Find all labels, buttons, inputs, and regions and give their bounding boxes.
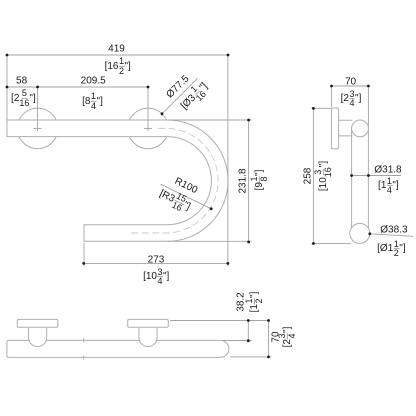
dim text 419 — [108, 45, 125, 54]
dim text [2 3/4"] (bottom view) — [278, 327, 296, 348]
flange stem (side) — [339, 120, 353, 136]
flange F2 circle (front) — [128, 108, 169, 149]
dim text 209.5 — [81, 76, 106, 85]
hidden edge ticks of lower run end — [83, 338, 85, 359]
dim 231.8 line — [248, 120, 250, 242]
ext line right x=228 (419 + 273) — [227, 55, 229, 266]
dim 58 / 209.5 line — [7, 86, 148, 88]
flange F2 center tick — [144, 127, 152, 129]
dim text Ø31.8 — [374, 166, 401, 175]
ext 258 bottom — [312, 242, 352, 244]
ext line left x=7 — [6, 55, 8, 120]
leader Ø38.3 — [370, 234, 413, 237]
dim text 58 — [16, 76, 27, 85]
flange stem S2 (bottom view) — [139, 328, 157, 347]
dim text [10 3/16"] — [314, 160, 332, 190]
dim text [Ø1 1/2"] — [377, 239, 405, 257]
dim text [2 3/4"] (side) — [341, 89, 362, 107]
flange F1 centerline — [37, 87, 39, 131]
dim text 38.2 (bottom view) — [237, 292, 246, 311]
ext 258 top — [312, 107, 332, 109]
ext 70 right — [367, 86, 369, 127]
tube centerline (dash-dot) — [130, 128, 218, 233]
flange F2 centerline — [147, 87, 149, 131]
dim text [2 5/16"] — [11, 89, 36, 107]
ext plate top line (bottom view) — [170, 320, 269, 322]
dim text Ø38.3 — [380, 225, 407, 234]
dim 70 line (side) — [332, 85, 369, 87]
dim text [8 1/4"] — [82, 92, 103, 110]
dim text [R3 15/16"] — [156, 185, 194, 216]
dim 38.2 line — [247, 321, 249, 341]
ext band top right — [222, 340, 252, 342]
leader R100 — [161, 184, 212, 209]
dim text [1 1/4"] — [378, 177, 399, 195]
dim 273 line — [84, 262, 228, 264]
dim text [1 1/2"] (bottom view) — [245, 291, 263, 312]
bar band (bottom view) — [7, 340, 229, 357]
dim 70 line (bottom view) — [268, 321, 270, 357]
ext 70 left — [331, 86, 333, 107]
leader Ø77.5 — [162, 78, 198, 114]
dim 419 line — [7, 54, 228, 56]
flange plate P1 (bottom view) — [17, 319, 58, 327]
dim text 70 (bottom view) — [272, 332, 281, 343]
dim text [9 1/8"] — [250, 169, 268, 190]
dim text [10 3/4"] — [143, 267, 169, 285]
ext band bottom right — [230, 356, 272, 358]
dim text [Ø3 1/16"] — [176, 78, 212, 114]
dimension end dots — [6, 54, 372, 359]
dim text 273 — [148, 255, 165, 264]
flange plate P2 (bottom view) — [128, 319, 169, 327]
bar cross-section Ø31.8 (side) — [352, 120, 369, 137]
dim text 231.8 — [238, 168, 247, 193]
dim text Ø77.5 — [165, 74, 191, 100]
dim text 258 — [303, 167, 312, 184]
dim Ø31.8 line — [352, 175, 401, 177]
ext bar top to 231.8 dim — [167, 119, 251, 121]
lower tube end Ø38.3 (side) — [350, 223, 370, 243]
ext lower run end down — [83, 243, 85, 266]
flange stem S1 (bottom view) — [29, 328, 47, 347]
ext bar bottom to 231.8 dim — [167, 240, 251, 242]
dim 258 line — [312, 108, 314, 243]
grab bar J-tube outline (front) — [7, 120, 228, 241]
tube drop band (side) — [352, 129, 369, 229]
flange F1 circle (front) — [17, 108, 58, 149]
dim text 70 (side) — [345, 77, 356, 86]
wall plate (side) — [331, 108, 338, 149]
dim text R100 — [173, 176, 198, 195]
dim text [16 1/2"] — [105, 57, 131, 75]
flange F1 center tick — [34, 127, 42, 129]
